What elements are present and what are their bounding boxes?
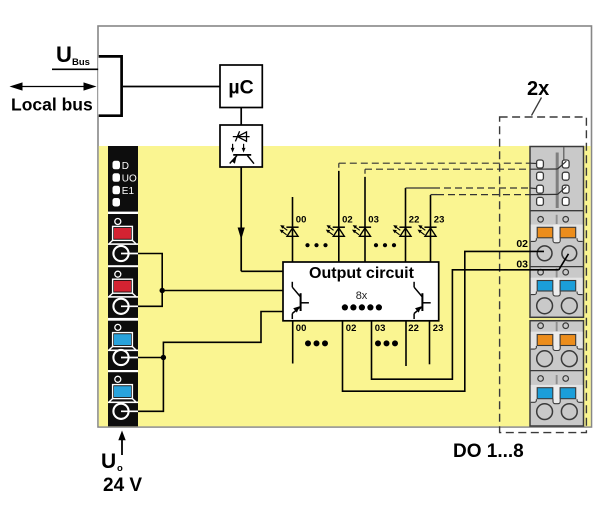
- svg-text:µC: µC: [228, 77, 253, 99]
- output stub 00: [292, 321, 294, 364]
- svg-text:UO: UO: [122, 173, 137, 184]
- group 1 red terminal: [115, 219, 121, 225]
- bus contact r2c1: [537, 172, 544, 180]
- svg-text:U: U: [101, 450, 116, 473]
- wire optocoupler down with arrow: [240, 167, 242, 271]
- pointer line from 2x to dashed box: [532, 98, 542, 116]
- orange clamp row g2: [531, 332, 583, 346]
- connector strip body: [108, 146, 138, 426]
- bus contact r1c2: [562, 160, 569, 168]
- bus contact r4c2: [562, 197, 569, 205]
- dashed bus wire 22: [406, 187, 434, 189]
- test point row g2b: [538, 376, 544, 382]
- svg-text:22: 22: [409, 215, 420, 226]
- output stub 23: [429, 321, 431, 365]
- output wire 02 to terminal: [343, 251, 545, 391]
- LED 00 wire: [292, 197, 294, 262]
- group 3 blue terminal: [115, 324, 121, 330]
- LED 23: [418, 225, 437, 236]
- bus connector block: [98, 55, 122, 117]
- LED 02 wire: [338, 171, 340, 262]
- svg-text:03: 03: [516, 259, 528, 271]
- LED 03: [352, 225, 371, 236]
- dots below box left: [305, 340, 311, 346]
- separator below LEDs: [108, 212, 138, 214]
- wire red terminals join: [138, 254, 162, 307]
- output circuit box: [283, 262, 439, 321]
- LED 22: [393, 225, 412, 236]
- optocoupler light arrows: [232, 144, 234, 149]
- screw hole 02: [537, 246, 552, 261]
- LED 00: [280, 225, 299, 236]
- dashed bus wire 02: [338, 163, 340, 171]
- wire blue terminals join: [138, 358, 163, 412]
- group 2 red terminal: [115, 271, 121, 277]
- terminal block lower body: [530, 321, 584, 426]
- screw holes g2: [537, 351, 553, 367]
- terminal block upper body: [530, 147, 584, 318]
- optocoupler box: [220, 125, 262, 167]
- dots below box right: [375, 340, 381, 346]
- wire uC to optocoupler: [240, 108, 242, 126]
- LED 02: [326, 225, 345, 236]
- node red join: [160, 288, 165, 293]
- dashed bus wire 03: [364, 169, 366, 177]
- LED blank: [113, 198, 121, 207]
- dashed bus wire 23: [431, 194, 438, 196]
- wire red to output circuit: [162, 290, 283, 292]
- blue clamp row g2: [531, 385, 583, 399]
- dots 5x: [342, 304, 348, 310]
- dots between LEDs upper right: [374, 243, 378, 247]
- orange clamp row g1: [531, 225, 583, 239]
- LED 22 wire: [405, 188, 407, 262]
- module outline box: [98, 26, 592, 427]
- wire U Bus: [52, 68, 99, 70]
- test point row g2: [538, 323, 544, 329]
- test point row g1b: [538, 269, 544, 275]
- LED 23 wire: [430, 195, 432, 262]
- node blue join: [161, 355, 166, 360]
- svg-text:2x: 2x: [527, 78, 549, 100]
- LED 03 wire: [364, 177, 366, 262]
- yellow logic area: [99, 146, 591, 426]
- svg-text:00: 00: [296, 215, 307, 226]
- wire into output circuit: [241, 270, 283, 272]
- screw holes g2b: [537, 404, 553, 420]
- wire blue to output circuit: [163, 312, 283, 358]
- svg-text:D: D: [122, 161, 129, 172]
- bus contact r3c2: [562, 185, 569, 193]
- svg-text:22: 22: [408, 323, 419, 334]
- svg-text:03: 03: [375, 323, 386, 334]
- svg-text:Output circuit: Output circuit: [309, 265, 415, 282]
- svg-text:02: 02: [516, 238, 528, 250]
- svg-text:23: 23: [433, 323, 444, 334]
- LED UO: [113, 173, 121, 182]
- LED E1: [113, 186, 121, 195]
- output stub 22: [405, 321, 407, 366]
- local bus double arrow: [18, 86, 88, 88]
- svg-text:Bus: Bus: [72, 57, 90, 68]
- bus bar (thick gray): [556, 153, 559, 209]
- bus stub col2: [563, 147, 565, 161]
- svg-text:23: 23: [434, 215, 445, 226]
- screw hole 03: [562, 246, 577, 261]
- bus contact r1c1: [537, 160, 544, 168]
- optocoupler LED: [233, 136, 250, 138]
- svg-text:U: U: [56, 42, 72, 67]
- svg-text:o: o: [117, 463, 123, 474]
- svg-text:02: 02: [342, 215, 353, 226]
- bus contact section divider: [530, 210, 584, 212]
- dots ellipsis upper left: [305, 243, 309, 247]
- blue clamp row g1: [531, 278, 583, 292]
- svg-text:24 V: 24 V: [103, 475, 142, 496]
- bus contact r3c1: [537, 185, 544, 193]
- svg-text:E1: E1: [122, 186, 135, 197]
- svg-text:DO 1...8: DO 1...8: [453, 441, 524, 462]
- svg-text:03: 03: [368, 215, 379, 226]
- bus contact r4c1: [537, 197, 544, 205]
- bus contact r2c2: [562, 172, 569, 180]
- group 4 blue terminal: [115, 376, 121, 382]
- svg-text:8x: 8x: [356, 290, 368, 302]
- transistor Q2: [414, 282, 431, 319]
- wire bus to uC: [123, 86, 220, 88]
- uC box U1: [220, 65, 262, 108]
- svg-text:Local bus: Local bus: [11, 95, 93, 115]
- svg-text:00: 00: [296, 323, 307, 334]
- optocoupler phototransistor: [233, 154, 251, 156]
- divider g2: [530, 370, 584, 372]
- LED D: [113, 161, 121, 170]
- divider g1: [530, 266, 584, 268]
- dashed box DO terminals: [500, 117, 587, 433]
- transistor Q1: [292, 282, 309, 319]
- supply arrow up: [121, 439, 123, 456]
- output wire 03 to terminal: [372, 270, 559, 379]
- screw holes g1b: [537, 298, 553, 314]
- svg-text:02: 02: [346, 323, 357, 334]
- test point row g1: [538, 217, 544, 223]
